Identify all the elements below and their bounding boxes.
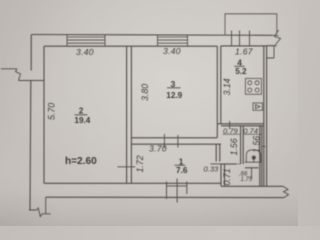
niche tick 0.33: [211, 163, 222, 165]
window W1 room2: [67, 35, 105, 47]
wire bottom-right break zigzag: [283, 186, 289, 197]
door ticks hall/room3 opening: [164, 134, 178, 149]
wire left outer wall: [30, 35, 31, 210]
entrance door in bottom wall: [167, 179, 187, 203]
wire top wall break zigzag: [272, 30, 281, 45]
kitchen bottom wall: [217, 124, 263, 126]
balcony outline above kitchen: [225, 14, 277, 35]
wc right wall: [260, 126, 262, 186]
bathroom bottom wall with door gap: [221, 163, 237, 165]
wire right wall (double): [264, 46, 267, 187]
wall hall / vestibule lower segment: [221, 164, 225, 186]
wire bottom-left corner stub and break: [29, 197, 51, 216]
wire left inner wall: [43, 46, 45, 183]
window W3 kitchen balcony door ticks: [232, 31, 250, 46]
wire bottom outer wall: [46, 196, 284, 198]
sink in kitchen: [253, 103, 262, 110]
dimension underline 0.74: [243, 133, 261, 135]
wire left wall break: line to edge, zigzag, return line: [1, 69, 44, 81]
wire bottom inner wall: [44, 183, 283, 186]
wire top outer wall: [32, 34, 273, 37]
door tick room2 from hall: [118, 166, 136, 168]
window W2 room3: [158, 35, 188, 47]
wall room3 / hall: [131, 138, 221, 144]
wire top inner wall line: [44, 45, 277, 48]
toilet in wc: [245, 150, 262, 162]
partition rooms 2/3 and room2/hall: [127, 46, 132, 183]
vent ledge at kitchen top right: [267, 46, 274, 58]
wall room3 / kitchen: [217, 46, 221, 138]
tick on kitchen bottom wall: [229, 121, 231, 129]
wc bottom wall segment and door tick: [245, 167, 259, 169]
wall hall / bath block upper segment: [216, 144, 220, 161]
dimension underline 0.79: [223, 133, 241, 135]
partition bathroom / wc: [241, 126, 244, 164]
vent tick: [262, 146, 266, 148]
stove in kitchen: [245, 78, 261, 94]
